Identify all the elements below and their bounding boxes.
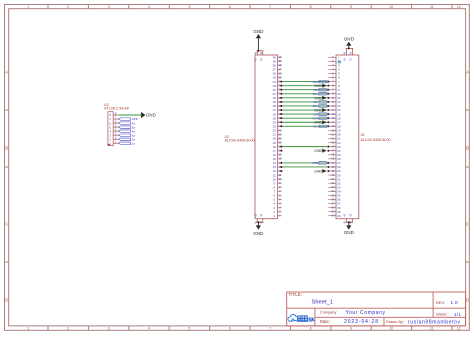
svg-text:1: 1 — [27, 327, 29, 331]
svg-text:A: A — [466, 70, 469, 75]
svg-text:2023-04-28: 2023-04-28 — [344, 319, 378, 325]
svg-text:GND: GND — [253, 29, 264, 34]
svg-text:XF128-2.54-8P: XF128-2.54-8P — [104, 106, 130, 110]
svg-text:B: B — [466, 146, 469, 151]
svg-text:Sheet_1: Sheet_1 — [312, 299, 334, 305]
svg-text:6: 6 — [229, 5, 231, 9]
svg-text:40: 40 — [337, 214, 341, 218]
svg-text:2: 2 — [67, 327, 69, 331]
svg-text:CK-: CK- — [313, 125, 318, 129]
svg-text:4: 4 — [148, 5, 150, 9]
svg-text:12: 12 — [457, 327, 461, 331]
svg-text:C: C — [5, 222, 8, 227]
svg-text:GND: GND — [253, 231, 264, 236]
svg-text:Your Company: Your Company — [346, 310, 386, 316]
svg-text:3: 3 — [108, 5, 110, 9]
svg-text:GND: GND — [314, 170, 322, 174]
svg-text:41: 41 — [349, 51, 352, 54]
svg-text:A: A — [5, 70, 8, 75]
svg-text:8: 8 — [310, 327, 312, 331]
svg-text:Sheet:: Sheet: — [436, 312, 448, 317]
svg-text:41: 41 — [343, 51, 346, 54]
svg-text:REV:: REV: — [436, 300, 445, 305]
svg-text:10: 10 — [390, 5, 394, 9]
svg-text:5: 5 — [188, 5, 190, 9]
svg-text:12: 12 — [457, 5, 461, 9]
svg-text:41: 41 — [254, 221, 257, 224]
svg-text:41: 41 — [260, 221, 263, 224]
svg-text:B: B — [5, 146, 8, 151]
svg-text:1: 1 — [27, 5, 29, 9]
svg-text:4: 4 — [148, 327, 150, 331]
svg-text:ruslan98mambetov: ruslan98mambetov — [408, 319, 461, 325]
svg-text:GND: GND — [344, 230, 355, 235]
svg-text:40: 40 — [331, 214, 335, 218]
svg-text:9: 9 — [350, 327, 352, 331]
svg-text:X1: X1 — [361, 133, 365, 137]
svg-text:9: 9 — [350, 5, 352, 9]
svg-text:6: 6 — [229, 327, 231, 331]
svg-text:8: 8 — [310, 5, 312, 9]
svg-text:3: 3 — [108, 327, 110, 331]
svg-text:C: C — [466, 222, 469, 227]
svg-text:7: 7 — [269, 327, 271, 331]
svg-text:GND: GND — [344, 36, 355, 41]
svg-text:Company:: Company: — [320, 311, 337, 315]
svg-text:TITLE:: TITLE: — [289, 292, 303, 297]
svg-text:1.0: 1.0 — [451, 300, 458, 305]
svg-text:GND: GND — [146, 113, 156, 118]
svg-text:HPD: HPD — [312, 161, 319, 165]
svg-text:ALC04-S40EIA-00: ALC04-S40EIA-00 — [361, 138, 391, 142]
svg-text:11: 11 — [430, 327, 434, 331]
svg-text:5: 5 — [188, 327, 190, 331]
svg-text:1/1: 1/1 — [454, 312, 461, 317]
svg-text:1a: 1a — [132, 141, 136, 145]
svg-text:41: 41 — [260, 51, 263, 54]
svg-text:EDA: EDA — [308, 317, 314, 323]
svg-text:ALC04-S40EIA-00: ALC04-S40EIA-00 — [225, 139, 255, 143]
svg-text:Drawn By:: Drawn By: — [386, 320, 404, 324]
svg-text:41: 41 — [349, 221, 352, 224]
svg-text:2: 2 — [67, 5, 69, 9]
svg-text:Date:: Date: — [320, 319, 330, 324]
svg-text:7: 7 — [269, 5, 271, 9]
svg-text:GND: GND — [314, 149, 322, 153]
svg-text:11: 11 — [430, 5, 434, 9]
svg-text:41: 41 — [254, 51, 257, 54]
svg-text:41: 41 — [343, 221, 346, 224]
svg-text:D: D — [5, 298, 8, 303]
svg-text:10: 10 — [390, 327, 394, 331]
svg-text:1: 1 — [273, 214, 275, 218]
svg-text:D: D — [466, 298, 469, 303]
